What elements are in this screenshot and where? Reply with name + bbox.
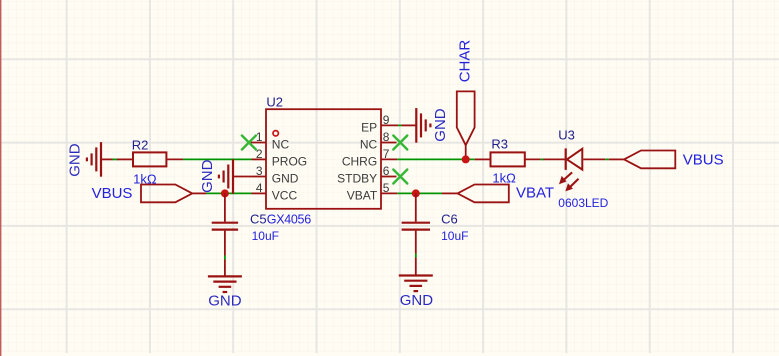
svg-text:GND: GND [208,293,242,310]
svg-text:VBAT: VBAT [516,185,554,202]
pin 2 PROG of U2 [252,147,308,169]
pin 4 VCC of U2 [252,181,298,203]
svg-text:0603LED: 0603LED [558,196,608,210]
resistor R3 [475,137,541,186]
svg-text:1: 1 [256,130,263,144]
wire CHRG to R3 [397,158,474,160]
svg-text:9: 9 [383,113,390,127]
svg-text:GX4056: GX4056 [267,212,311,226]
no-connect X pin 8 [393,136,407,150]
svg-text:NC: NC [272,138,290,152]
wire R3 to U3 [541,158,544,160]
svg-text:5: 5 [383,181,390,195]
svg-text:8: 8 [383,130,390,144]
svg-text:NC: NC [360,138,378,152]
ground GND (left, at R2) [67,142,114,177]
svg-text:4: 4 [256,181,263,195]
pin 8 NC of U2 [360,130,397,152]
LED U3 0603LED [544,128,609,210]
svg-text:CHAR: CHAR [456,40,473,83]
wire C5 to GND [224,256,226,260]
svg-text:PROG: PROG [272,154,307,168]
svg-text:CHRG: CHRG [342,154,377,168]
svg-text:EP: EP [361,120,377,134]
ground GND (below C5) [208,260,242,310]
svg-text:GND: GND [272,172,299,186]
ground GND (at U2 pin 3) [199,159,252,194]
svg-text:U3: U3 [558,128,575,143]
svg-text:10uF: 10uF [252,229,279,243]
svg-text:VCC: VCC [272,188,298,202]
wire C6 to GND [415,254,417,258]
svg-text:VBUS: VBUS [92,185,133,202]
pin 1 NC of U2 [250,130,290,152]
wire GND to R2 [113,158,119,160]
ground GND (below C6) [399,258,433,310]
svg-text:R3: R3 [491,137,508,152]
svg-text:7: 7 [383,147,390,161]
ground GND (at U2 pin 9) [402,108,450,143]
resistor R2 [117,137,183,186]
svg-text:VBAT: VBAT [347,188,378,202]
svg-text:6: 6 [383,164,390,178]
svg-text:C6: C6 [441,212,458,227]
svg-text:2: 2 [256,147,263,161]
pin 6 STDBY of U2 [337,164,396,186]
capacitor C6 [402,193,469,253]
svg-text:10uF: 10uF [441,229,468,243]
pin 9 EP of U2 [361,113,398,134]
net flag VBUS (left) [92,185,207,203]
wire U3 to VBUS flag [605,158,608,160]
svg-text:GND: GND [432,108,449,142]
junction VBAT/C6 [412,189,420,197]
svg-text:C5: C5 [250,211,267,226]
pin 5 VBAT of U2 [347,181,398,203]
svg-text:VBUS: VBUS [683,151,724,168]
pin 1 indicator circle [273,131,278,136]
pin 3 GND of U2 [252,164,299,186]
svg-text:GND: GND [67,143,84,177]
svg-text:STDBY: STDBY [337,172,377,186]
wire VBUS flag to U2 VCC [206,192,251,194]
no-connect X pin 1 [242,136,256,150]
no-connect X pin 6 [393,170,407,184]
net flag CHAR [456,40,474,160]
svg-text:1kΩ: 1kΩ [492,171,516,186]
svg-text:GND: GND [199,159,216,193]
pin 7 CHRG of U2 [342,147,397,169]
junction CHRG/CHAR [462,155,470,163]
svg-text:R2: R2 [132,137,149,152]
net flag VBAT [442,185,554,203]
capacitor C5 [212,193,279,255]
wire U2 VBAT to flag [397,192,442,194]
junction VCC/C5 [221,189,229,197]
svg-text:GND: GND [400,292,434,309]
svg-text:U2: U2 [266,95,283,110]
wire R2 to U2 PROG [183,158,252,160]
svg-text:3: 3 [256,164,263,178]
net flag VBUS (right) [609,151,724,169]
wire EP to GND [398,124,402,126]
op-amp U2 GX4056 body [266,95,381,227]
